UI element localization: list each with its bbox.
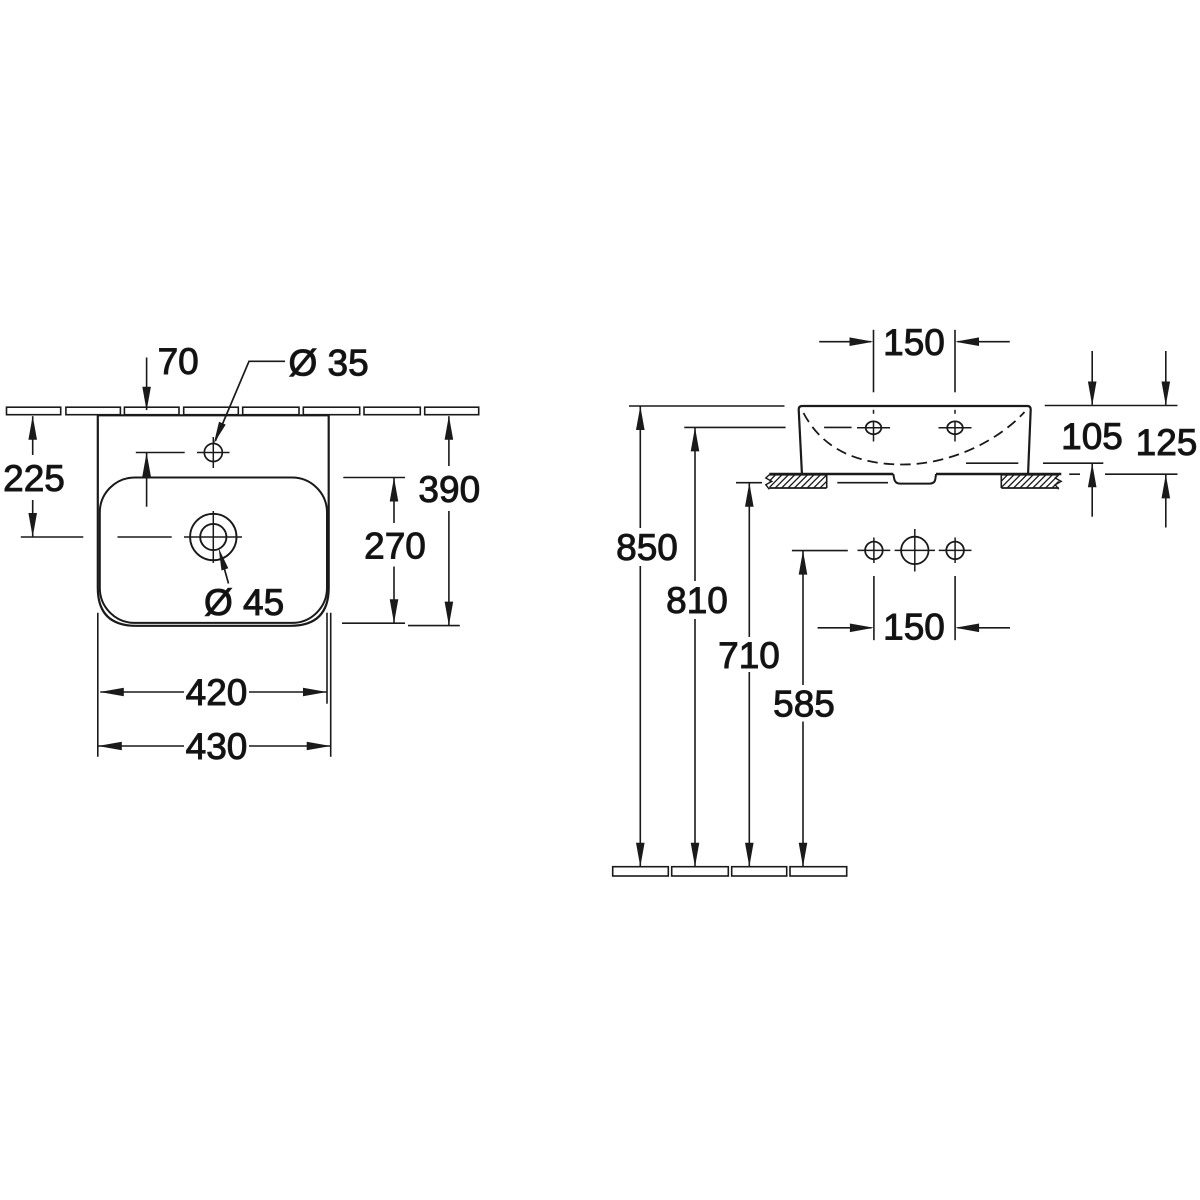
svg-text:430: 430 [186, 726, 248, 767]
svg-text:270: 270 [364, 526, 426, 567]
svg-text:810: 810 [666, 580, 728, 621]
svg-text:Ø 35: Ø 35 [289, 342, 369, 383]
svg-text:150: 150 [883, 322, 945, 363]
svg-text:710: 710 [718, 635, 780, 676]
svg-text:105: 105 [1061, 416, 1123, 457]
svg-text:420: 420 [186, 672, 248, 713]
svg-text:125: 125 [1136, 422, 1198, 463]
svg-text:585: 585 [773, 684, 835, 725]
svg-text:150: 150 [883, 607, 945, 648]
svg-text:225: 225 [3, 458, 65, 499]
svg-text:390: 390 [418, 469, 480, 510]
svg-text:850: 850 [616, 527, 678, 568]
svg-text:70: 70 [158, 341, 199, 382]
svg-text:Ø 45: Ø 45 [204, 582, 284, 623]
